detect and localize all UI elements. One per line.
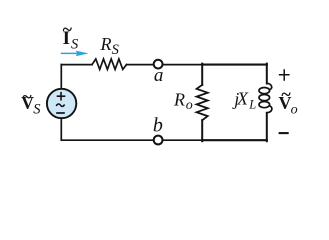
svg-text:a: a — [154, 65, 164, 86]
wire top horizontal RO to XL — [202, 64, 267, 66]
svg-text:o: o — [291, 103, 298, 118]
source tilde — [56, 104, 64, 106]
resistor RO zigzag — [197, 85, 208, 120]
label RS — [100, 34, 120, 58]
label VO (phasor V_o) — [279, 84, 298, 118]
wire XL branch bottom lead — [266, 113, 268, 141]
wire top left segment — [61, 64, 92, 66]
svg-text:~: ~ — [281, 84, 291, 104]
svg-text:o: o — [186, 98, 193, 113]
svg-text:S: S — [71, 36, 79, 52]
output minus sign — [279, 132, 289, 134]
svg-text:R: R — [173, 89, 185, 109]
wire bottom segment through node b to RO branch — [61, 139, 202, 141]
label jXL — [232, 89, 256, 112]
svg-text:~: ~ — [22, 86, 32, 106]
node b terminal circle — [154, 136, 163, 145]
svg-text:R: R — [100, 34, 112, 54]
label VS (phasor V_S) — [21, 86, 41, 117]
source plus sign — [57, 92, 66, 101]
wire left vertical (source up to top-left corner) — [60, 65, 62, 89]
resistor RS zigzag — [92, 59, 127, 69]
svg-text:b: b — [153, 114, 163, 136]
svg-text:S: S — [112, 42, 120, 58]
wire left vertical (source down to bottom wire) — [60, 118, 62, 140]
node a terminal circle — [154, 60, 163, 69]
wire XL branch top lead — [266, 64, 268, 84]
wire bottom horizontal RO to XL — [202, 139, 267, 141]
svg-text:X: X — [236, 89, 249, 109]
wire RO branch top lead — [201, 64, 203, 85]
label RO — [173, 89, 193, 113]
inductor XL coil — [259, 83, 272, 113]
label node a — [154, 65, 164, 86]
wire RO branch bottom lead — [201, 120, 203, 141]
voltage source VS — [47, 89, 76, 118]
label node b — [153, 114, 163, 136]
label IS (phasor I_S) — [63, 19, 79, 52]
current IS arrow — [61, 51, 89, 57]
svg-text:S: S — [33, 102, 41, 118]
source minus sign — [56, 112, 65, 114]
svg-text:L: L — [248, 97, 256, 111]
output plus sign — [279, 69, 290, 81]
wire RS to node a and on to RO branch — [127, 64, 203, 66]
